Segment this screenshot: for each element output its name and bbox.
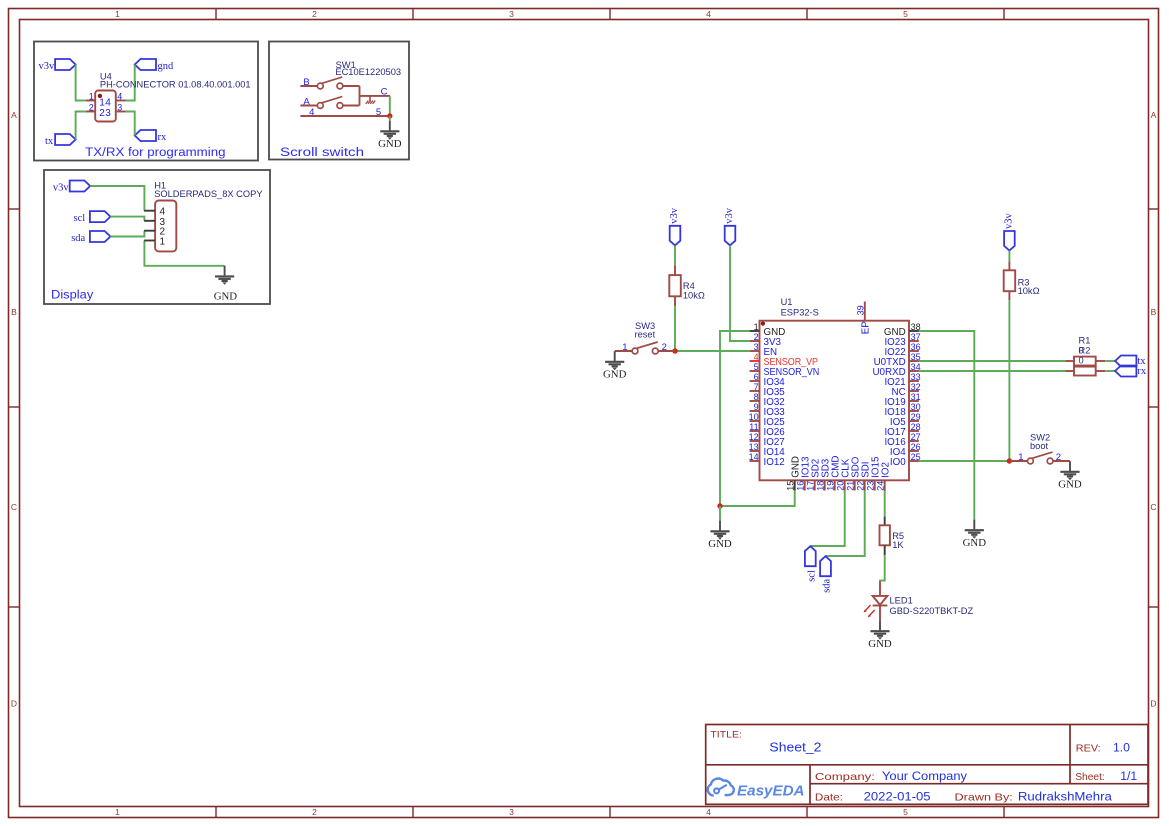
box TX/RX for programming	[34, 42, 258, 161]
svg-text:GND: GND	[868, 638, 892, 650]
svg-text:12: 12	[749, 432, 759, 442]
wire v3v to U4 pin1	[76, 65, 86, 101]
svg-text:GND: GND	[963, 537, 987, 549]
svg-text:32: 32	[911, 382, 921, 392]
svg-text:23: 23	[865, 481, 875, 491]
svg-text:3: 3	[509, 9, 514, 19]
svg-text:C: C	[11, 502, 17, 512]
svg-text:3: 3	[509, 807, 514, 817]
U1 pin 14 IO12	[749, 452, 785, 468]
svg-text:37: 37	[911, 332, 921, 342]
connector U4 body	[95, 91, 116, 122]
U1 pin 5 SENSOR_VN	[750, 362, 820, 378]
U1 pin 16 IO13	[795, 456, 811, 491]
wire U1 GND pin1 down	[720, 331, 750, 506]
svg-text:IO12: IO12	[764, 457, 785, 468]
wire U0TXD to R1	[919, 360, 1065, 362]
U1 pin 7 IO35	[750, 382, 786, 398]
switch SW1 pole A	[300, 97, 359, 109]
wire to pin15	[720, 491, 795, 507]
svg-text:A: A	[1151, 110, 1157, 120]
svg-text:3: 3	[754, 342, 759, 352]
U1 pin 10 IO25	[749, 412, 786, 428]
svg-text:27: 27	[911, 432, 921, 442]
U4 pin 4	[116, 100, 126, 102]
svg-text:1: 1	[622, 342, 627, 353]
svg-text:C: C	[381, 86, 388, 97]
svg-text:1: 1	[160, 237, 166, 248]
svg-text:3: 3	[117, 103, 122, 113]
ground GND (U1 right)	[963, 520, 987, 550]
svg-text:1K: 1K	[892, 540, 904, 550]
U1 pin 34 U0RXD	[872, 362, 920, 378]
svg-text:5: 5	[903, 9, 908, 19]
H1 pin names	[160, 207, 166, 248]
ground GND (display)	[214, 266, 238, 303]
svg-text:EC10E1220503: EC10E1220503	[335, 67, 401, 77]
svg-text:v3v: v3v	[669, 207, 680, 224]
svg-text:U1: U1	[781, 297, 793, 307]
net flag gnd	[135, 59, 174, 72]
junction at SW1 pin5	[387, 113, 392, 118]
frame column numbers top	[115, 9, 908, 19]
U1 pin 11 IO26	[749, 422, 785, 438]
svg-text:4: 4	[754, 352, 759, 362]
svg-text:Scroll switch: Scroll switch	[280, 145, 364, 159]
U1 pin 2 3V3	[750, 332, 782, 348]
svg-text:2: 2	[662, 342, 667, 353]
net flag v3v (3V3)	[724, 207, 735, 245]
wire to ground	[389, 116, 391, 121]
box Scroll switch	[269, 42, 409, 160]
svg-text:2: 2	[1056, 452, 1061, 463]
wire H1 pin1 to ground	[144, 241, 224, 266]
H1 pin 3	[144, 220, 155, 222]
LED LED1	[873, 581, 888, 620]
frame column ticks bottom	[216, 807, 1004, 818]
svg-text:B: B	[1151, 307, 1157, 317]
wire R4 to EN junction	[674, 306, 676, 351]
svg-text:ESP32-S: ESP32-S	[781, 307, 819, 317]
svg-text:IO2: IO2	[880, 462, 891, 478]
frame row letters left	[11, 110, 17, 709]
U1 pin 6 IO34	[750, 372, 786, 388]
svg-text:1: 1	[754, 322, 759, 332]
ground GND (scroll switch)	[378, 121, 402, 151]
frame row letters right	[1150, 110, 1156, 709]
wire gnd to U4 pin4	[126, 65, 135, 101]
wire U1 CLK to scl	[810, 491, 844, 547]
svg-text:16: 16	[795, 481, 805, 491]
svg-text:30: 30	[911, 402, 921, 412]
svg-text:26: 26	[911, 442, 921, 452]
svg-text:3: 3	[105, 108, 111, 119]
svg-text:21: 21	[845, 481, 855, 491]
U1 pin 17 SD2	[805, 459, 821, 491]
wire v3v to R4	[674, 245, 676, 265]
svg-text:boot: boot	[1030, 441, 1049, 451]
net flag v3v (R4)	[669, 207, 680, 245]
svg-text:31: 31	[911, 392, 921, 402]
wire U1 IO0 to junction	[919, 460, 1010, 462]
U1 pin 19 CMD	[825, 455, 841, 490]
wire v3v to H1 pin4	[90, 186, 144, 211]
wire R5 to LED1	[880, 555, 885, 581]
svg-text:A: A	[11, 110, 17, 120]
U1 pin 24 IO2	[875, 462, 891, 491]
U1 pin 13 IO14	[749, 442, 786, 458]
svg-text:Sheet:: Sheet:	[1075, 772, 1105, 783]
net flag scl (U1)	[805, 546, 818, 582]
svg-text:GND: GND	[378, 138, 402, 150]
svg-text:R2: R2	[1079, 346, 1091, 356]
junction GND node	[717, 503, 722, 508]
U1 pin 23 IO15	[865, 456, 881, 491]
svg-text:GBD-S220TBKT-DZ: GBD-S220TBKT-DZ	[890, 606, 974, 616]
svg-text:33: 33	[911, 372, 921, 382]
svg-text:10: 10	[749, 412, 759, 422]
ground GND (LED1)	[868, 621, 892, 651]
svg-text:sda: sda	[822, 578, 833, 592]
U1 pin 38 GND	[884, 322, 921, 338]
U1 pin 30 IO18	[884, 402, 920, 418]
svg-text:rx: rx	[1137, 366, 1146, 377]
svg-text:Display: Display	[51, 288, 94, 302]
svg-text:R4: R4	[683, 281, 695, 291]
net flag scl	[74, 211, 111, 224]
svg-text:rx: rx	[158, 132, 167, 143]
U4 pin names	[99, 97, 111, 119]
svg-text:2: 2	[312, 9, 317, 19]
switch SW3	[615, 342, 675, 354]
U1 pin 29 IO5	[890, 412, 921, 428]
svg-text:GND: GND	[603, 369, 627, 381]
svg-text:Drawn By:: Drawn By:	[955, 792, 1013, 803]
resistor R3	[1004, 261, 1016, 300]
box Display	[44, 170, 270, 304]
svg-text:GND: GND	[214, 291, 238, 303]
U1 pin 20 CLK	[835, 458, 851, 491]
U1 pin 26 IO4	[890, 442, 921, 458]
ground GND (SW2)	[1058, 461, 1082, 491]
U1 pin 4 SENSOR_VP	[750, 352, 819, 368]
U1 pin 39 EP	[856, 302, 872, 335]
svg-text:4: 4	[105, 97, 111, 108]
net flag rx	[135, 130, 167, 143]
wire v3v to U1 3V3	[730, 245, 750, 341]
frame column numbers bottom	[115, 807, 908, 817]
wire tx to U4 pin2	[76, 112, 86, 140]
svg-text:Your Company: Your Company	[882, 769, 968, 783]
svg-text:Date:: Date:	[815, 792, 843, 803]
svg-text:C: C	[1150, 502, 1156, 512]
wire junction to ground	[719, 506, 721, 521]
svg-text:1: 1	[115, 9, 120, 19]
svg-text:D: D	[1150, 699, 1156, 709]
IC U1 ESP32-S body	[760, 321, 910, 481]
SW1 frame hatch symbol	[366, 96, 376, 104]
frame row ticks right	[1149, 209, 1159, 607]
svg-text:39: 39	[856, 305, 866, 315]
net flag sda (U1)	[820, 556, 833, 593]
U1 pin 18 SD3	[815, 458, 831, 491]
net flag rx	[1115, 366, 1147, 378]
svg-text:TITLE:: TITLE:	[710, 730, 742, 740]
wire v3v to R3	[1008, 251, 1010, 262]
U1 pin 8 IO32	[750, 392, 785, 408]
frame row ticks left	[9, 209, 20, 607]
svg-text:36: 36	[911, 342, 921, 352]
U1 pin 31 IO19	[884, 392, 920, 408]
SW1 common C lead	[360, 95, 391, 97]
svg-text:Company:: Company:	[815, 772, 875, 783]
wire U1 SDI to sda	[826, 491, 865, 557]
frame column ticks top	[216, 9, 1004, 20]
ground GND (U1 left)	[708, 521, 732, 551]
U1 pin 28 IO17	[884, 422, 920, 438]
U1 pin1 marker dot	[761, 322, 765, 326]
title block borders	[706, 725, 1148, 805]
svg-text:8: 8	[754, 392, 759, 402]
wire C to row 5	[389, 96, 391, 116]
svg-text:4: 4	[706, 9, 711, 19]
svg-text:RudrakshMehra: RudrakshMehra	[1018, 789, 1112, 803]
svg-text:A: A	[303, 96, 310, 107]
svg-text:sda: sda	[71, 233, 85, 244]
svg-text:tx: tx	[45, 136, 54, 147]
U1 pin 22 SDI	[855, 461, 871, 490]
U1 pin 1 GND	[750, 322, 786, 338]
svg-text:10kΩ: 10kΩ	[1018, 286, 1040, 296]
U4 pin1 marker dot	[98, 94, 102, 98]
switch SW1 pole B	[300, 77, 359, 89]
H1 pin 1	[144, 240, 155, 242]
svg-text:PH-CONNECTOR 01.08.40.001.001: PH-CONNECTOR 01.08.40.001.001	[100, 79, 251, 89]
ground GND (SW3)	[603, 351, 627, 381]
svg-text:18: 18	[815, 481, 825, 491]
svg-text:v3v: v3v	[724, 207, 735, 224]
header H1 body	[155, 201, 176, 252]
svg-text:22: 22	[855, 481, 865, 491]
svg-text:5: 5	[903, 807, 908, 817]
svg-text:4: 4	[706, 807, 711, 817]
U1 pin 33 IO21	[884, 372, 920, 388]
svg-text:4: 4	[117, 92, 122, 102]
U1 pin 35 U0TXD	[874, 352, 921, 368]
svg-text:1.0: 1.0	[1113, 740, 1130, 754]
svg-text:EasyEDA: EasyEDA	[737, 784, 805, 800]
svg-text:19: 19	[825, 481, 835, 491]
svg-text:7: 7	[754, 382, 759, 392]
svg-text:v3v: v3v	[38, 61, 55, 72]
U4 pin numbers	[89, 92, 122, 113]
H1 pin 4	[144, 210, 155, 212]
svg-text:1: 1	[89, 92, 94, 102]
net flag v3v	[38, 59, 75, 72]
svg-text:14: 14	[749, 452, 759, 462]
switch SW2	[1009, 452, 1070, 464]
svg-text:IO0: IO0	[890, 457, 906, 468]
U4 pin 2	[86, 111, 95, 113]
net flag sda	[71, 231, 110, 244]
U1 pin 25 IO0	[890, 452, 921, 468]
svg-text:29: 29	[911, 412, 921, 422]
junction IO0 node	[1007, 458, 1012, 463]
U4 pin 1	[86, 100, 95, 102]
wire scl to H1 pin3	[110, 217, 144, 221]
svg-text:13: 13	[749, 442, 759, 452]
svg-text:24: 24	[875, 481, 885, 491]
wire R3 to IO0 junction	[1008, 300, 1010, 461]
SW1 pin 4-5 row	[300, 115, 389, 117]
U1 pin 32 NC	[892, 382, 921, 398]
net flag tx	[1115, 356, 1146, 368]
svg-text:9: 9	[754, 402, 759, 412]
svg-text:15: 15	[785, 481, 795, 491]
svg-text:1: 1	[115, 807, 120, 817]
wire sda to H1 pin2	[110, 231, 144, 237]
wire U1 IO2 to R5	[884, 491, 886, 517]
svg-text:REV:: REV:	[1076, 743, 1101, 754]
svg-text:GND: GND	[1058, 479, 1082, 491]
LED1 emission arrows	[864, 605, 875, 617]
svg-text:2: 2	[89, 103, 94, 113]
svg-text:0: 0	[1079, 356, 1084, 366]
svg-text:2022-01-05: 2022-01-05	[864, 789, 931, 803]
svg-text:6: 6	[754, 372, 759, 382]
junction EN node	[672, 348, 677, 353]
svg-text:28: 28	[911, 422, 921, 432]
svg-text:EP: EP	[860, 321, 871, 335]
wire rx to U4 pin3	[126, 112, 135, 136]
svg-text:1/1: 1/1	[1120, 769, 1137, 783]
svg-text:B: B	[11, 307, 17, 317]
svg-text:5: 5	[754, 362, 759, 372]
svg-text:Sheet_2: Sheet_2	[769, 740, 821, 755]
svg-text:2: 2	[754, 332, 759, 342]
svg-text:GND: GND	[708, 538, 732, 550]
wire R1 to tx	[1105, 360, 1115, 362]
resistor R4	[669, 265, 681, 306]
H1 pin 2	[144, 230, 155, 232]
U1 pin 27 IO16	[884, 432, 920, 448]
svg-text:scl: scl	[74, 213, 86, 224]
resistor R2	[1065, 367, 1105, 376]
svg-text:11: 11	[749, 422, 758, 432]
U1 pin 21 SDO	[845, 456, 861, 491]
svg-text:v3v: v3v	[53, 182, 70, 193]
svg-text:TX/RX for programming: TX/RX for programming	[85, 145, 225, 159]
svg-text:reset: reset	[635, 330, 656, 340]
resistor R1	[1065, 357, 1105, 366]
net flag tx	[45, 134, 76, 147]
svg-text:10kΩ: 10kΩ	[683, 291, 705, 301]
U1 pin 15 GND	[785, 456, 801, 491]
SW1 common bracket	[359, 86, 361, 106]
svg-text:20: 20	[835, 481, 845, 491]
wire junction to U1 EN	[675, 350, 750, 352]
net flag v3v (R3)	[1004, 213, 1015, 251]
svg-text:1: 1	[1018, 452, 1023, 463]
svg-text:SOLDERPADS_8X COPY: SOLDERPADS_8X COPY	[154, 189, 262, 199]
svg-text:gnd: gnd	[158, 61, 175, 72]
U4 pin 3	[116, 111, 126, 113]
EasyEDA logo cloud	[708, 779, 734, 796]
U1 pin 9 IO33	[750, 402, 786, 418]
svg-text:R1: R1	[1079, 336, 1091, 346]
svg-text:2: 2	[312, 807, 317, 817]
svg-text:scl: scl	[807, 570, 818, 582]
U1 pin 12 IO27	[749, 432, 785, 448]
U1 pin 37 IO23	[884, 332, 920, 348]
resistor R5	[880, 517, 890, 556]
svg-text:LED1: LED1	[890, 595, 913, 605]
wire U0RXD to R2	[919, 370, 1065, 372]
svg-text:17: 17	[805, 481, 815, 491]
svg-text:D: D	[11, 699, 17, 709]
wire R2 to rx	[1105, 370, 1115, 372]
U1 pin 36 IO22	[884, 342, 920, 358]
net flag v3v (display)	[53, 181, 90, 194]
U1 pin 3 EN	[750, 342, 778, 358]
svg-text:B: B	[303, 77, 309, 88]
wire U1 pin38 GND	[919, 331, 974, 520]
svg-text:v3v: v3v	[1004, 213, 1015, 230]
